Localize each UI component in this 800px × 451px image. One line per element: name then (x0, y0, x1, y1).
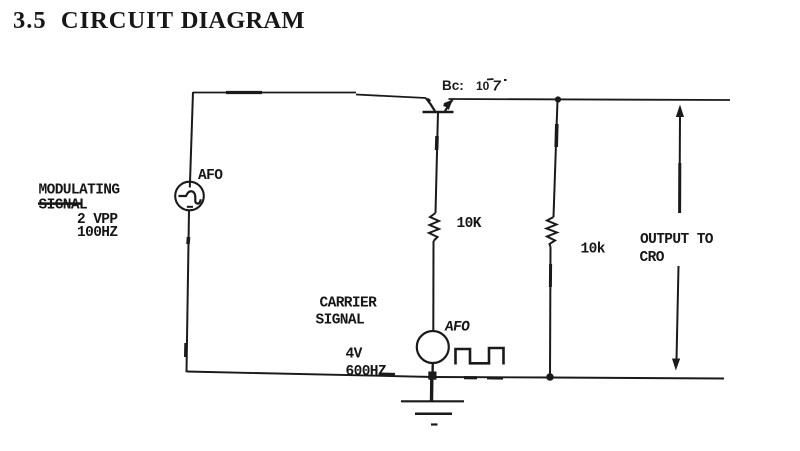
wire right branch lower (549, 247, 552, 376)
node junction bottom right (546, 373, 554, 381)
title (13, 9, 305, 34)
svg-text:CARRIER: CARRIER (320, 296, 378, 312)
transistor Q1 (423, 98, 454, 112)
AFO source U1 (modulating sine source) (175, 182, 204, 211)
wire R1 to carrier source (432, 241, 434, 331)
node junction top right (555, 96, 561, 102)
label MODULATING SIGNAL (38, 183, 120, 214)
label OUTPUT TO CRO (640, 232, 714, 266)
svg-text:Bc:: Bc: (442, 78, 464, 93)
ground (401, 379, 464, 425)
svg-text:100HZ: 100HZ (77, 225, 118, 241)
wire base lead down from Q1 (436, 112, 439, 213)
wire bottom rail (187, 372, 725, 379)
svg-text:CRO: CRO (640, 250, 665, 266)
resistor R1 10K (429, 213, 439, 241)
svg-text:7: 7 (493, 79, 502, 95)
svg-text:10k: 10k (581, 242, 606, 258)
svg-text:10K: 10K (457, 216, 482, 232)
svg-text:AFO: AFO (444, 320, 471, 336)
svg-text:AFO: AFO (198, 168, 223, 184)
wire top rail left (193, 93, 426, 99)
wire carrier source to bottom node (431, 363, 434, 376)
node junction bottom center (428, 372, 436, 380)
wire right branch upper (554, 100, 558, 217)
label CARRIER SIGNAL (316, 296, 378, 329)
output arrow down (672, 266, 680, 371)
wire top rail right (collector to output node) (449, 99, 731, 100)
svg-text:10: 10 (476, 79, 490, 93)
resistor R2 10k (547, 217, 558, 247)
label Bc 107 (442, 78, 507, 95)
svg-text:4V: 4V (346, 347, 363, 363)
svg-text:OUTPUT TO: OUTPUT TO (640, 232, 714, 248)
svg-text:600HZ: 600HZ (346, 364, 387, 380)
output arrow up (676, 105, 684, 214)
wire left branch (modulating source branch) (186, 92, 193, 372)
svg-text:SIGNAL: SIGNAL (316, 313, 365, 329)
square wave symbol (456, 348, 504, 365)
svg-text:MODULATING: MODULATING (39, 183, 120, 199)
AFO source U2 (carrier square source) (417, 331, 449, 363)
